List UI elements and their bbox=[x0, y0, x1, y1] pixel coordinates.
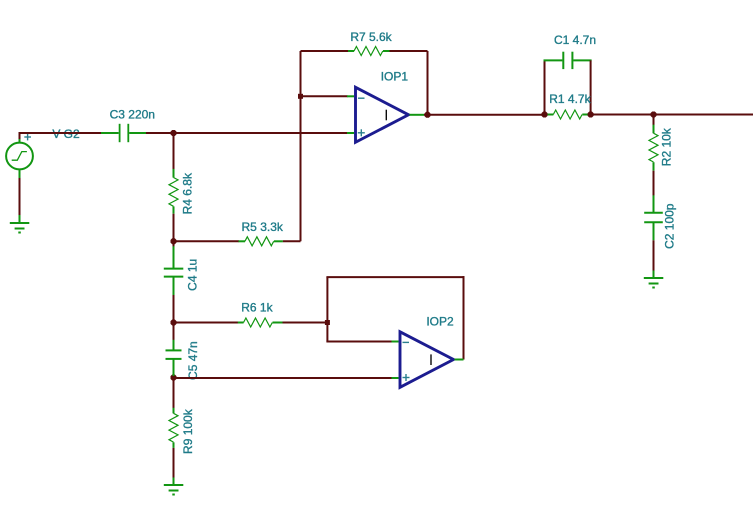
resistor R6 bbox=[174, 318, 328, 327]
svg-text:C5 47n: C5 47n bbox=[186, 341, 200, 380]
voltage source VG2 bbox=[6, 139, 33, 180]
wire node I to IOP2 minus input bbox=[326, 323, 392, 342]
wire IOP1 output to R1 bbox=[424, 114, 545, 116]
resistor R9 bbox=[169, 380, 178, 478]
capacitor C2 bbox=[644, 195, 663, 271]
wire R7 right down to output bbox=[427, 51, 429, 115]
node A junction bbox=[171, 130, 177, 136]
IOP2 plus pin mark bbox=[403, 374, 410, 381]
wire IOP2 feedback loop bbox=[326, 276, 464, 359]
node I square junction (R6/IOP2 feedback) bbox=[325, 320, 330, 325]
resistor R7 bbox=[301, 47, 428, 56]
svg-text:IOP1: IOP1 bbox=[381, 69, 409, 83]
resistor R1 bbox=[545, 110, 591, 119]
wire node K to IOP2 plus input bbox=[174, 377, 393, 379]
op-amp IOP2 bbox=[392, 332, 464, 388]
svg-text:R6 1k: R6 1k bbox=[241, 301, 273, 315]
wire node C to IOP1 minus input bbox=[301, 95, 348, 97]
wire VG2 top to C3 bbox=[19, 132, 102, 139]
svg-text:C2 100p: C2 100p bbox=[663, 203, 677, 249]
IOP2 minus pin mark bbox=[403, 341, 410, 343]
svg-text:R2 10k: R2 10k bbox=[659, 127, 673, 166]
wire R1 to node G and right edge bbox=[591, 114, 753, 116]
capacitor C5 bbox=[166, 325, 182, 377]
capacitor C3 bbox=[101, 124, 146, 142]
node K junction (C5/R9/IOP2 plus) bbox=[651, 112, 657, 118]
node D junction (output/R7) bbox=[171, 320, 177, 326]
wire VG2 bottom to ground bbox=[19, 178, 21, 216]
wire node A to IOP1 plus input bbox=[174, 132, 348, 134]
node B junction (R4/R5/C4) bbox=[171, 238, 177, 244]
node H junction (C4/R6/C5) bbox=[588, 112, 594, 118]
resistor R2 bbox=[649, 115, 658, 196]
node C square junction (inverting input node) bbox=[298, 94, 303, 99]
IOP1 minus pin mark bbox=[358, 97, 365, 99]
svg-text:V G2: V G2 bbox=[52, 127, 80, 141]
wire feedback column x=300.5 bbox=[300, 51, 302, 241]
ground (R9) bbox=[164, 478, 184, 495]
node G junction (R2 tap) bbox=[542, 112, 548, 118]
svg-text:C1 4.7n: C1 4.7n bbox=[554, 33, 596, 47]
svg-text:C3 220n: C3 220n bbox=[110, 107, 155, 121]
capacitor C4 bbox=[164, 243, 184, 322]
node F junction (R1 right) bbox=[425, 112, 431, 118]
capacitor C1 bbox=[544, 52, 592, 115]
svg-text:R4 6.8k: R4 6.8k bbox=[181, 172, 195, 214]
svg-text:R9 100k: R9 100k bbox=[181, 408, 195, 454]
svg-text:R5 3.3k: R5 3.3k bbox=[242, 220, 284, 234]
resistor R5 bbox=[174, 237, 301, 246]
op-amp IOP1 bbox=[347, 87, 424, 142]
svg-text:R7 5.6k: R7 5.6k bbox=[350, 30, 392, 44]
wire C3 to node A bbox=[146, 132, 174, 134]
IOP1 plus pin mark bbox=[358, 129, 365, 136]
svg-text:C4 1u: C4 1u bbox=[186, 259, 200, 291]
svg-text:IOP2: IOP2 bbox=[426, 315, 454, 329]
node E junction (R1 left) bbox=[171, 375, 177, 381]
ground (VG2) bbox=[10, 215, 30, 233]
svg-text:R1 4.7k: R1 4.7k bbox=[549, 92, 591, 106]
resistor R4 bbox=[169, 135, 178, 241]
VG2 plus polarity mark bbox=[24, 134, 31, 141]
ground (C2) bbox=[644, 271, 664, 288]
